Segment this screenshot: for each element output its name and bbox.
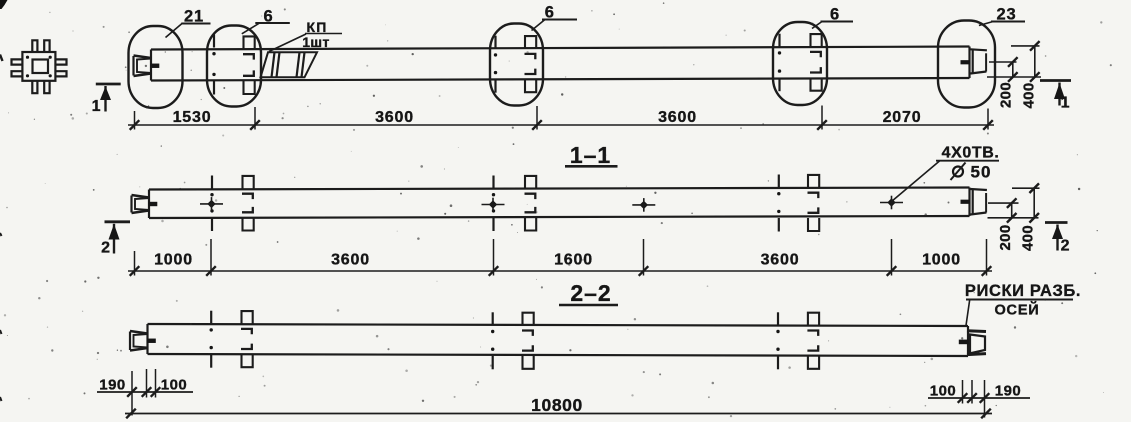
svg-text:3600: 3600 — [761, 252, 800, 269]
row3 axis mark at x=211 — [210, 311, 213, 368]
svg-text:100: 100 — [930, 383, 957, 400]
note diameter symbol — [951, 163, 966, 181]
row2 axis mark at x=779 — [777, 175, 780, 232]
row1 dim ticks — [130, 120, 993, 130]
svg-text:50: 50 — [971, 163, 992, 182]
svg-text:2070: 2070 — [883, 109, 922, 126]
cross-section bottom stubs — [32, 81, 49, 93]
cross-section right stubs — [55, 59, 66, 76]
row1 axis mark in oval 2 — [212, 35, 215, 95]
row2 dim 400 line — [1029, 183, 1039, 222]
section arrow 2 right — [1045, 223, 1070, 255]
row2 anchor diamond at x=644 — [632, 198, 655, 212]
svg-text:1шт: 1шт — [302, 34, 330, 50]
row3 embedded plate at x=528 — [522, 313, 534, 369]
callout label 6 (oval 3) — [532, 4, 578, 31]
oval 1 (callout 21) — [129, 26, 183, 108]
svg-text:1: 1 — [92, 98, 102, 115]
svg-text:1–1: 1–1 — [570, 142, 611, 168]
row3 right end bracket with setting-out marks — [959, 331, 986, 355]
svg-text:10800: 10800 — [531, 395, 583, 415]
row1 dim 200 line — [1008, 57, 1018, 82]
oval 3 (callout 6) — [490, 24, 543, 106]
row1 left end channel bracket — [134, 56, 160, 77]
leader line for 4 holes note — [892, 161, 1000, 202]
svg-text:200: 200 — [997, 225, 1014, 251]
row1 embedded plate in oval 2 — [243, 36, 255, 94]
svg-text:1: 1 — [1061, 95, 1071, 112]
column cross-section symbol (top-left) — [22, 52, 55, 81]
row1 embedded plate in oval 4 — [810, 34, 822, 91]
section title 2-2 — [559, 280, 618, 306]
svg-text:100: 100 — [161, 377, 188, 394]
svg-text:400: 400 — [1021, 83, 1038, 109]
callout label 21 — [166, 8, 211, 38]
svg-text:400: 400 — [1020, 225, 1037, 251]
row3 right dim extension lines — [963, 380, 985, 418]
row2 dim 200/400 extension lines — [988, 188, 1040, 218]
svg-text:190: 190 — [995, 383, 1022, 400]
svg-text:1530: 1530 — [173, 109, 212, 126]
svg-text:4Х0ТВ.: 4Х0ТВ. — [942, 145, 1000, 162]
row2 dimension line — [128, 270, 992, 272]
oval 2 (callout 6) — [207, 26, 261, 107]
row2 embedded plate at x=813 — [808, 175, 820, 231]
svg-text:190: 190 — [99, 377, 126, 394]
row1 dim 400 line — [1030, 41, 1040, 82]
callout label 6 (oval 2) — [242, 8, 290, 34]
section arrow 1 right — [1040, 81, 1071, 112]
row1 axis mark in oval 3 — [494, 36, 497, 93]
row1 dim 200/400 extension lines — [987, 46, 1041, 77]
row2 embedded plate at x=248 — [242, 176, 254, 231]
cross-section corner dots — [26, 56, 52, 78]
row2 right end bracket — [961, 189, 987, 215]
row2 anchor diamond at x=493 — [482, 198, 505, 212]
section arrow 2 left — [101, 222, 130, 257]
svg-text:ОСЕЙ: ОСЕЙ — [994, 301, 1039, 319]
callout label 23 — [979, 6, 1025, 26]
overall dimension line 10800 — [125, 395, 992, 418]
svg-text:1000: 1000 — [922, 252, 961, 269]
row3 embedded plate at x=813 — [807, 313, 819, 369]
KP parallelogram detail — [261, 52, 318, 77]
row2 axis mark at x=493 — [492, 176, 495, 232]
row2 dim ticks — [130, 266, 992, 276]
svg-text:РИСКИ РАЗБ.: РИСКИ РАЗБ. — [965, 282, 1081, 300]
svg-text:1600: 1600 — [554, 252, 593, 269]
svg-text:2: 2 — [101, 240, 111, 257]
row2 left end channel bracket — [132, 195, 158, 213]
section title 1-1 — [565, 142, 618, 168]
row1 beam outline (plan view) — [151, 47, 970, 81]
row1 embedded plate in oval 3 — [525, 36, 537, 92]
row3 left dim extension lines — [132, 369, 156, 416]
svg-text:2: 2 — [1061, 238, 1071, 255]
row1 axis mark in oval 4 — [778, 34, 781, 91]
svg-text:КП: КП — [306, 19, 327, 35]
svg-text:200: 200 — [998, 82, 1015, 108]
row3 left small dims 190/100 — [97, 377, 193, 397]
cross-section top stubs — [32, 40, 49, 52]
row1 dim extension lines — [135, 106, 989, 130]
row3 axis mark at x=778 — [776, 312, 779, 369]
row1 right end bracket in oval 5 — [961, 49, 987, 73]
row2 beam outline (section 1-1) — [149, 188, 970, 219]
row2 anchor diamond at x=212 — [200, 197, 223, 211]
row3 beam outline (section 2-2) — [148, 324, 969, 356]
scan artifact left edge — [0, 55, 3, 402]
row3 embedded plate at x=247 — [241, 311, 253, 367]
row1 dimension line — [128, 124, 994, 126]
row3 left end channel bracket — [130, 331, 156, 351]
oval 5 (callout 23) — [938, 21, 995, 108]
cross-section left stubs — [12, 59, 23, 76]
section arrow 1 left — [92, 84, 121, 115]
row2 dim extension lines — [135, 239, 987, 276]
row2 dim 200 line — [1007, 198, 1017, 222]
row3 right small dims 100/190 — [928, 383, 1030, 403]
row3 axis mark at x=493 — [491, 312, 494, 369]
leader line for setting-out marks note — [966, 300, 1073, 326]
row2 axis mark at x=212 — [210, 176, 213, 232]
callout label 6 (oval 4) — [812, 6, 853, 29]
row2 anchor diamond at x=891 (hole) — [880, 196, 903, 210]
oval 4 (callout 6) — [773, 22, 827, 105]
svg-text:1000: 1000 — [154, 252, 193, 269]
KP leader line — [269, 34, 342, 52]
svg-text:3600: 3600 — [331, 252, 370, 269]
svg-text:3600: 3600 — [375, 109, 414, 126]
svg-text:3600: 3600 — [658, 109, 697, 126]
scan artifact top-left corner — [0, 0, 8, 9]
row2 embedded plate at x=530 — [525, 176, 537, 231]
svg-text:2–2: 2–2 — [570, 280, 611, 306]
